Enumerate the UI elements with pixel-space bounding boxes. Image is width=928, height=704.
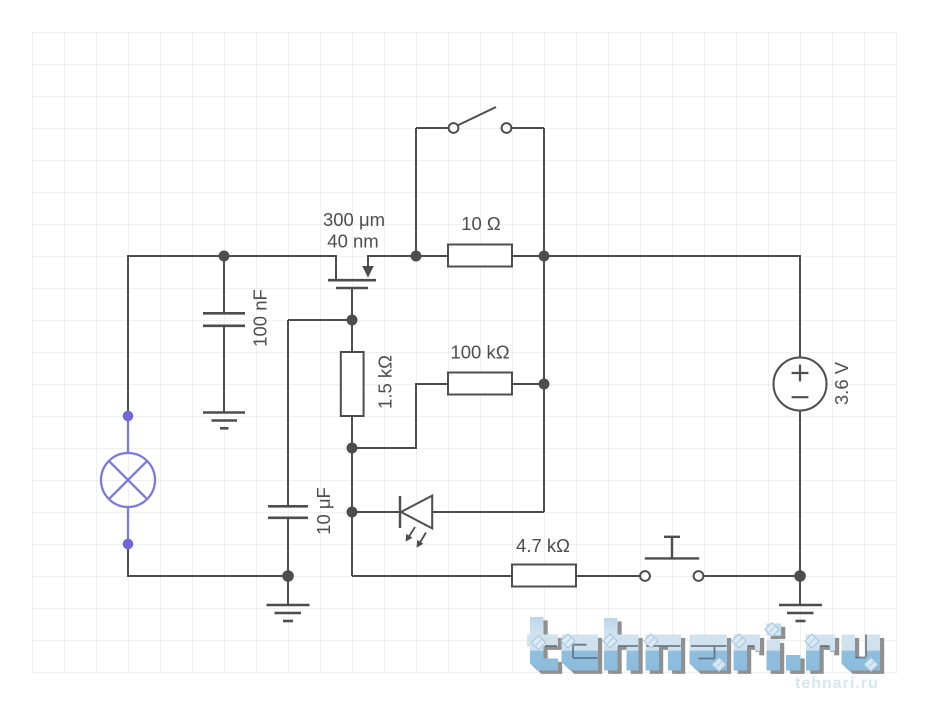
svg-text:300 μm: 300 μm (323, 209, 385, 230)
wire button to ground node (704, 575, 801, 577)
wire below lamp (127, 548, 129, 576)
wire LED anode stub (352, 511, 399, 513)
svg-text:40 nm: 40 nm (327, 231, 378, 252)
svg-text:tehnari.ru: tehnari.ru (795, 675, 879, 692)
resistor R1 10 Ohm (448, 245, 512, 267)
LED D1 (400, 496, 432, 529)
svg-text:100 nF: 100 nF (250, 289, 271, 347)
lamp terminal node (blue dot top) (123, 411, 134, 422)
ground G1 (100nF) (203, 413, 245, 429)
svg-text:1.5 kΩ: 1.5 kΩ (375, 355, 396, 409)
wire ground stub G2 (287, 576, 289, 605)
wire 1.5k bottom (351, 416, 353, 448)
resistor R4 1.5 kOhm vertical (341, 352, 364, 416)
svg-text:10 Ω: 10 Ω (461, 213, 501, 234)
svg-text:3.6 V: 3.6 V (831, 361, 852, 405)
svg-text:10 μF: 10 μF (313, 487, 334, 535)
wire rail between 10ohm and corner (512, 255, 800, 257)
wire bottom-left rail (127, 575, 288, 577)
capacitor C1 100nF plates (203, 313, 245, 326)
switch SW1 (449, 123, 512, 133)
resistor R2 100 kOhm (448, 373, 512, 395)
transistor M1 MOSFET (328, 255, 376, 320)
wire transistor source to 1.5k (351, 320, 353, 352)
wire switch left drop (415, 128, 417, 256)
wire 100k left branch (352, 384, 448, 448)
transistor M1 drain arrow head (362, 266, 374, 278)
wire source top drop (799, 255, 801, 358)
wire 100nF bottom stub (223, 326, 225, 412)
wire top rail right of transistor (368, 255, 448, 257)
switch SW1 lever (458, 107, 496, 125)
voltage source V1 3.6V (774, 358, 827, 411)
wire top rail left (128, 255, 336, 257)
junction node at 288,576 (282, 570, 294, 582)
watermark inner counter lines (545, 635, 866, 659)
junction node at 352,512 (347, 507, 358, 518)
wire source bottom (799, 410, 801, 576)
wire 100nF top stub (223, 256, 225, 313)
ground G2 (10uF) (267, 605, 310, 621)
wire bottom-right rail (352, 575, 512, 577)
ground G3 (battery) (779, 605, 822, 621)
junction node at 224,256 (219, 251, 230, 262)
junction node at 352,448 (347, 443, 358, 454)
wire 10uF bottom stub (287, 518, 289, 576)
junction node at 416,256 (411, 251, 422, 262)
LED D1 light arrows (408, 527, 427, 545)
watermark tehnari.ru shadow (531, 620, 884, 674)
wire node A horizontal (288, 319, 352, 321)
junction node at 544,256 (539, 251, 550, 262)
junction node at 544,384 (539, 379, 550, 390)
watermark tehnari.ru letters (527, 617, 880, 671)
svg-text:100 kΩ: 100 kΩ (450, 342, 509, 363)
wire LED to x544 (432, 511, 544, 513)
watermark screw decorations (532, 623, 879, 672)
wire switch left horizontal (416, 127, 449, 129)
junction node at 352,320 (347, 315, 358, 326)
svg-text:4.7 kΩ: 4.7 kΩ (516, 535, 570, 556)
wire ground stub G3 (799, 576, 801, 605)
wire switch right horizontal (511, 127, 544, 129)
wire 4.7k to button (576, 575, 640, 577)
lamp terminal node (blue dot bottom) (123, 539, 134, 550)
junction node at 800,576 (794, 570, 806, 582)
wire 100k right stub (512, 383, 544, 385)
lamp L1 (blue) (101, 421, 155, 543)
wire x544 vertical to LED row (543, 256, 545, 512)
wire 10uF top stub (287, 320, 289, 506)
wire LED column (351, 448, 353, 576)
wire left vertical drop (127, 255, 129, 412)
resistor R3 4.7 kOhm (512, 565, 576, 587)
wire switch right drop (543, 128, 545, 256)
capacitor C2 10uF plates (268, 506, 308, 518)
push button S1 (640, 571, 703, 581)
